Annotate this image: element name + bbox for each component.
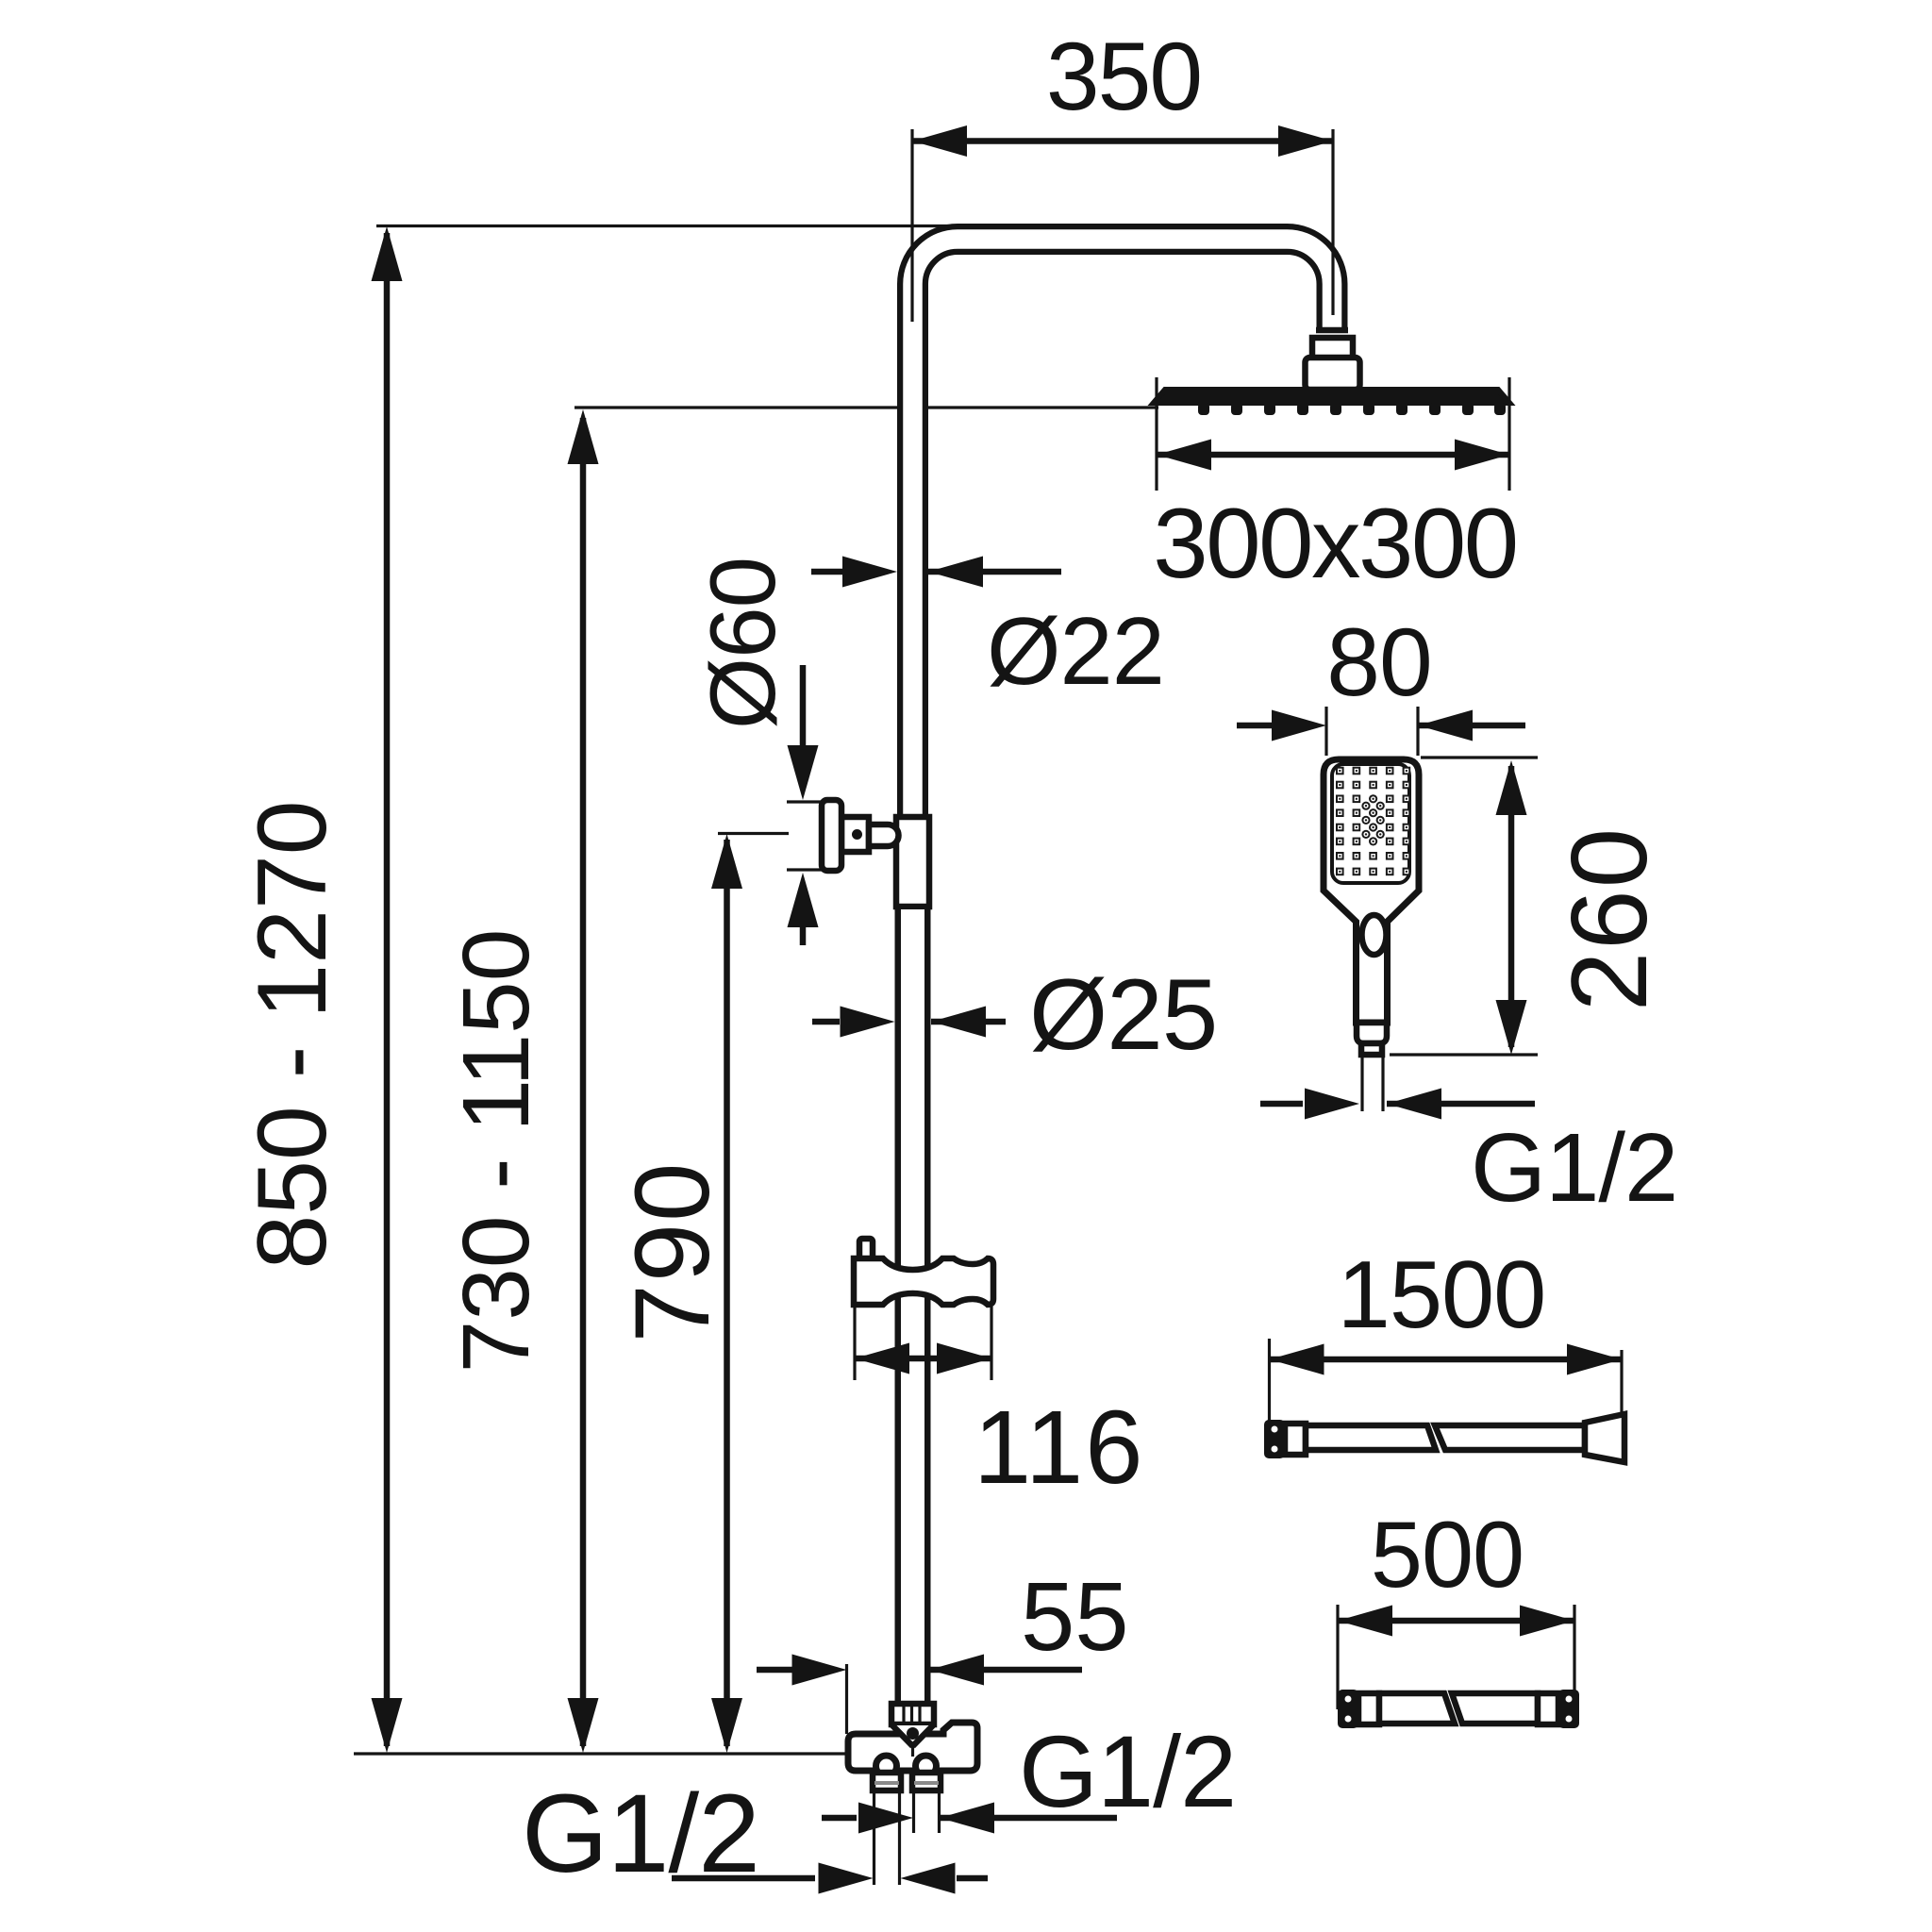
- svg-text:116: 116: [974, 1390, 1144, 1506]
- svg-text:790: 790: [613, 1161, 731, 1343]
- svg-text:Ø25: Ø25: [1029, 958, 1217, 1071]
- svg-text:80: 80: [1326, 608, 1431, 716]
- svg-text:260: 260: [1550, 826, 1670, 1011]
- svg-text:G1/2: G1/2: [1019, 1714, 1236, 1828]
- svg-text:G1/2: G1/2: [522, 1772, 759, 1896]
- svg-text:Ø60: Ø60: [691, 558, 794, 729]
- svg-text:730 - 1150: 730 - 1150: [443, 929, 549, 1374]
- svg-text:850 - 1270: 850 - 1270: [238, 800, 347, 1269]
- svg-text:350: 350: [1046, 23, 1201, 130]
- svg-text:300x300: 300x300: [1153, 489, 1516, 599]
- svg-text:55: 55: [1021, 1562, 1129, 1671]
- svg-text:G1/2: G1/2: [1471, 1113, 1677, 1222]
- svg-text:1500: 1500: [1338, 1242, 1546, 1348]
- svg-text:500: 500: [1371, 1502, 1524, 1607]
- svg-text:Ø22: Ø22: [987, 599, 1164, 705]
